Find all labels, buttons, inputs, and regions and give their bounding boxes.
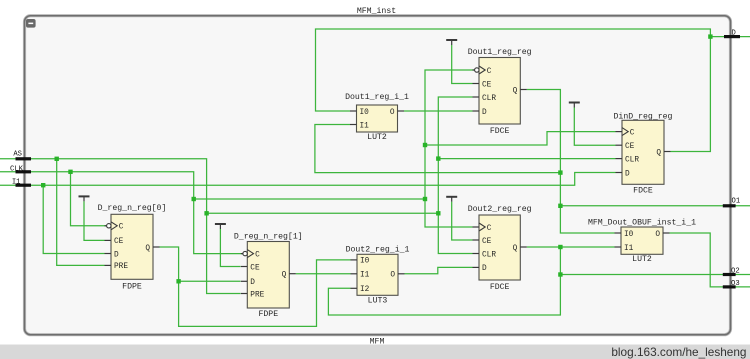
- wire net CLK (clock trunk): [0, 70, 616, 254]
- svg-text:Dout1_reg_reg: Dout1_reg_reg: [468, 48, 532, 57]
- wire net D_reg_n_reg[1].Q: [296, 273, 351, 275]
- svg-text:Dout1_reg_i_1: Dout1_reg_i_1: [345, 92, 409, 102]
- input port I1: [12, 179, 31, 187]
- LUT Dout1_reg_i_1 LUT2: [345, 92, 409, 142]
- svg-text:Q: Q: [656, 149, 661, 157]
- svg-text:O: O: [390, 109, 395, 117]
- svg-text:I0: I0: [360, 258, 370, 266]
- LUT Dout2_reg_i_1 LUT3: [346, 245, 410, 306]
- watermark bar: [0, 345, 750, 359]
- wire net D_reg_n_reg[0].Q: [159, 247, 350, 326]
- svg-text:Q: Q: [282, 272, 287, 280]
- svg-text:FDPE: FDPE: [122, 283, 142, 292]
- flip-flop Dout2_reg_reg FDCE: [468, 205, 532, 292]
- svg-text:CLR: CLR: [482, 95, 496, 103]
- svg-text:Q: Q: [145, 245, 150, 253]
- constant tie for D_reg_n_reg[1].CE: [215, 224, 241, 267]
- svg-text:CLR: CLR: [625, 156, 639, 164]
- svg-text:I0: I0: [624, 231, 634, 239]
- wire net DinD_reg_reg.Q (to output D and LUT2.I0): [316, 29, 750, 152]
- output port O3: [723, 280, 740, 288]
- svg-text:C: C: [487, 68, 492, 76]
- svg-text:Dout2_reg_reg: Dout2_reg_reg: [468, 205, 532, 214]
- input port CLK: [10, 165, 31, 173]
- flip-flop D_reg_n_reg[1] FDPE: [234, 232, 303, 320]
- svg-text:D_reg_n_reg[1]: D_reg_n_reg[1]: [234, 232, 303, 242]
- svg-text:Dout2_reg_i_1: Dout2_reg_i_1: [346, 245, 410, 255]
- svg-text:FDPE: FDPE: [258, 310, 278, 319]
- svg-text:CE: CE: [250, 264, 260, 272]
- svg-text:DinD_reg_reg: DinD_reg_reg: [614, 111, 673, 121]
- svg-text:MFM_Dout_OBUF_inst_i_1: MFM_Dout_OBUF_inst_i_1: [588, 218, 696, 228]
- wire net Dout1_reg_reg.Q (to O1, OBUF.I0, LUT2.I1): [315, 90, 750, 234]
- flip-flop DinD_reg_reg FDCE: [614, 111, 673, 195]
- svg-text:I1: I1: [624, 245, 634, 253]
- svg-text:I1: I1: [360, 272, 370, 280]
- constant tie for DinD_reg_reg.CE: [569, 103, 616, 146]
- output port O1: [723, 197, 740, 207]
- LUT MFM_Dout_OBUF_inst_i_1 LUT2: [588, 218, 696, 265]
- wire net MFM_Dout_OBUF_inst_i_1.O to O3: [670, 233, 750, 287]
- svg-text:LUT3: LUT3: [368, 297, 388, 306]
- svg-text:FDCE: FDCE: [490, 127, 510, 136]
- svg-text:PRE: PRE: [250, 291, 264, 299]
- constant tie for Dout1_reg_reg.CE: [446, 40, 472, 84]
- svg-text:C: C: [630, 129, 635, 137]
- svg-text:D_reg_n_reg[0]: D_reg_n_reg[0]: [98, 203, 167, 213]
- svg-text:C: C: [255, 251, 260, 259]
- input port AS: [13, 150, 31, 160]
- svg-text:I2: I2: [360, 286, 370, 294]
- svg-text:LUT2: LUT2: [367, 133, 387, 142]
- svg-text:Q: Q: [513, 245, 518, 253]
- svg-text:D: D: [482, 109, 487, 117]
- output port D: [724, 29, 740, 38]
- svg-text:MFM_inst: MFM_inst: [357, 6, 396, 16]
- wire net Dout2_reg_i_1.O to Dout2_reg_reg.D: [405, 267, 473, 273]
- svg-text:CE: CE: [114, 238, 124, 246]
- wire net AS (async preset/clear trunk): [0, 97, 616, 294]
- output port O2: [723, 267, 740, 276]
- svg-text:CE: CE: [482, 81, 492, 89]
- constant tie for D_reg_n_reg[0].CE: [79, 196, 105, 240]
- svg-text:D: D: [625, 170, 630, 178]
- wire net Dout1_reg_i_1.O to Dout1_reg_reg.D: [404, 110, 473, 112]
- svg-text:I1: I1: [360, 122, 370, 130]
- flip-flop D_reg_n_reg[0] FDPE: [98, 203, 167, 292]
- flip-flop Dout1_reg_reg FDCE: [468, 48, 532, 136]
- svg-text:O: O: [655, 231, 660, 239]
- svg-text:CE: CE: [625, 143, 635, 151]
- svg-text:D: D: [250, 279, 255, 287]
- svg-text:I0: I0: [360, 109, 370, 117]
- wire net Dout2_reg_reg.Q (to O2, OBUF.I1, LUT3.I2): [328, 245, 750, 315]
- svg-text:FDCE: FDCE: [633, 187, 653, 196]
- svg-text:AS: AS: [13, 150, 22, 158]
- svg-text:FDCE: FDCE: [490, 283, 510, 292]
- svg-text:D: D: [114, 251, 119, 259]
- constant tie for Dout2_reg_reg.CE: [446, 197, 472, 240]
- svg-text:C: C: [487, 225, 492, 233]
- svg-text:LUT2: LUT2: [632, 255, 652, 264]
- svg-text:CLR: CLR: [482, 251, 496, 259]
- svg-text:PRE: PRE: [114, 263, 128, 271]
- svg-text:D: D: [482, 265, 487, 273]
- svg-text:O: O: [390, 272, 395, 280]
- wire net I1 (data input): [0, 173, 616, 254]
- svg-text:Q: Q: [513, 87, 518, 95]
- svg-text:blog.163.com/he_lesheng: blog.163.com/he_lesheng: [611, 345, 746, 359]
- collapse icon: [26, 19, 36, 28]
- svg-text:C: C: [119, 224, 124, 232]
- svg-text:CE: CE: [482, 238, 492, 246]
